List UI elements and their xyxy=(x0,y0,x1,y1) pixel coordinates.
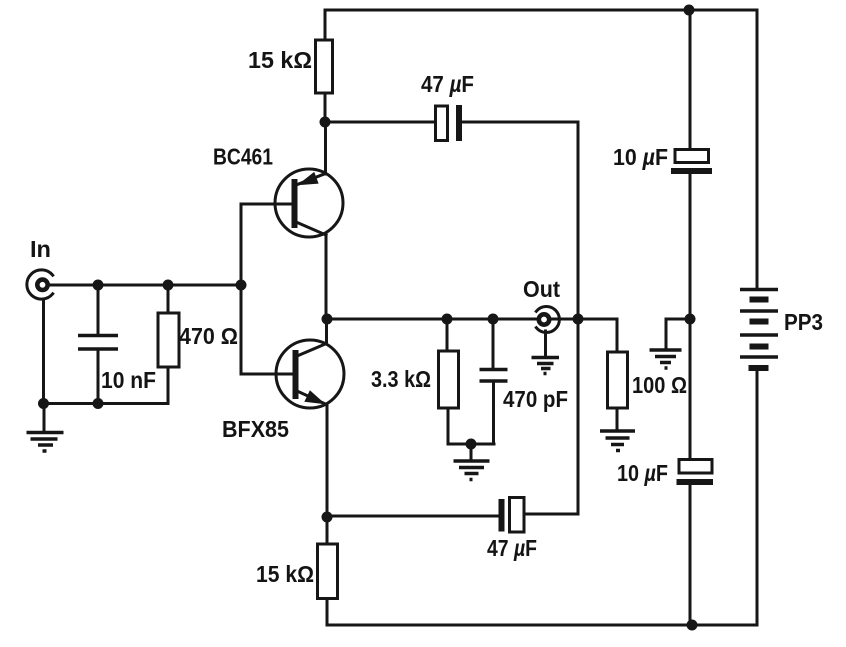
wire decoupling column middle xyxy=(689,174,692,460)
ground input xyxy=(27,404,64,452)
svg-text:BC461: BC461 xyxy=(213,144,273,170)
junction BFX85 emitter node xyxy=(322,512,333,523)
battery PP3 xyxy=(740,290,778,369)
ground centre tap xyxy=(650,350,682,368)
junction input at 10nF xyxy=(93,280,104,291)
junction bottom link xyxy=(466,439,477,450)
transistor Q1 BC461 xyxy=(275,169,343,237)
svg-text:Out: Out xyxy=(523,276,560,302)
svg-text:3.3 kΩ: 3.3 kΩ xyxy=(371,366,431,392)
transistor Q2 BFX85 xyxy=(276,340,344,408)
junction mid rail at 3.3k xyxy=(442,314,453,325)
label 10 uF upper xyxy=(613,144,668,170)
resistor 3.3 kOhm xyxy=(439,319,459,444)
svg-text:47 µF: 47 µF xyxy=(421,71,474,97)
capacitor 10 uF (upper) xyxy=(671,150,712,172)
label 10 nF xyxy=(101,367,156,393)
wire emitter node to lower coupling cap xyxy=(327,515,499,518)
label 47 uF upper xyxy=(421,71,474,97)
label 470 Ohm xyxy=(179,323,238,349)
junction decoupling column centre tap xyxy=(685,314,696,325)
resistor 15 kOhm (upper) xyxy=(316,10,333,122)
wire lower coupling cap to output column xyxy=(524,513,578,516)
wire BFX85 emitter lead down xyxy=(326,405,329,517)
wire BFX85 collector lead up to mid node xyxy=(325,319,328,344)
junction mid rail at 470pF xyxy=(488,314,499,325)
wire BC461 emitter lead xyxy=(324,122,327,174)
svg-text:15 kΩ: 15 kΩ xyxy=(248,47,312,73)
label 3.3 kOhm xyxy=(371,366,431,392)
svg-text:10 µF: 10 µF xyxy=(617,460,668,486)
wire right supply column lower (from battery -) xyxy=(756,368,759,625)
wire right supply column upper (to battery +) xyxy=(756,10,759,289)
wire base link BFX85 xyxy=(241,285,293,374)
svg-text:10 nF: 10 nF xyxy=(101,367,156,393)
junction bottom rail at 10uF branch xyxy=(687,620,698,631)
svg-text:15 kΩ: 15 kΩ xyxy=(256,561,314,587)
resistor 470 Ohm xyxy=(158,285,179,404)
junction input at 470R xyxy=(163,280,174,291)
label 47 uF lower xyxy=(487,535,537,561)
junction mid rail at transistors xyxy=(322,314,333,325)
wire decoupling column lower xyxy=(689,485,692,626)
wire In jack sleeve down xyxy=(42,299,45,404)
svg-text:470 Ω: 470 Ω xyxy=(179,323,238,349)
svg-text:47 µF: 47 µF xyxy=(487,535,537,561)
label BC461 xyxy=(213,144,273,170)
wire mid output rail xyxy=(326,318,538,321)
ground 3.3k/470pF xyxy=(454,444,490,480)
node Out xyxy=(523,276,560,302)
svg-text:In: In xyxy=(30,236,51,262)
wire Out jack sleeve stub xyxy=(544,331,547,356)
wire input ground rail xyxy=(44,402,169,405)
connector Out jack xyxy=(536,307,559,333)
label 470 pF xyxy=(503,386,568,412)
svg-text:10 µF: 10 µF xyxy=(613,144,668,170)
svg-text:470 pF: 470 pF xyxy=(503,386,568,412)
capacitor 10 uF (lower) xyxy=(677,460,714,483)
label 15 kOhm lower xyxy=(256,561,314,587)
junction ground rail at 10nF xyxy=(93,398,104,409)
wire 3.3k to 470pF bottom link xyxy=(448,443,494,446)
wire bottom supply rail xyxy=(327,624,757,627)
label 100 Ohm xyxy=(632,372,687,398)
resistor 15 kOhm (lower) xyxy=(318,517,338,625)
capacitor 47 uF (lower coupling) xyxy=(502,498,525,533)
resistor 100 Ohm xyxy=(608,352,628,430)
svg-text:BFX85: BFX85 xyxy=(222,416,289,442)
label 15 kOhm upper xyxy=(248,47,312,73)
capacitor 10 nF xyxy=(78,285,118,404)
capacitor 470 pF xyxy=(480,319,508,444)
svg-text:100 Ω: 100 Ω xyxy=(632,372,687,398)
connector In jack xyxy=(27,270,53,299)
label PP3 xyxy=(784,309,823,335)
wire input rail xyxy=(49,284,241,287)
label BFX85 xyxy=(222,416,289,442)
junction input at base column xyxy=(236,280,247,291)
wire base link BC461 xyxy=(241,204,292,285)
wire coupling cap to output column xyxy=(462,121,579,124)
capacitor 47 uF (upper coupling) xyxy=(436,105,460,141)
wire collector node to coupling cap xyxy=(325,121,434,124)
wire BC461 collector lead down to mid node xyxy=(325,235,328,319)
wire Out jack to output column xyxy=(550,318,578,321)
wire mid rail to 100R xyxy=(578,319,617,352)
junction ground rail at jack xyxy=(38,398,49,409)
junction output column at mid rail xyxy=(573,314,584,325)
wire centre tap to ground xyxy=(666,319,690,349)
svg-text:PP3: PP3 xyxy=(784,309,823,335)
node In xyxy=(30,236,51,262)
wire top supply rail xyxy=(325,9,757,12)
wire output feed column xyxy=(577,122,580,514)
label 10 uF lower xyxy=(617,460,668,486)
junction collector node BC461 xyxy=(320,117,331,128)
ground 100R xyxy=(600,431,635,451)
ground Out jack xyxy=(532,358,560,374)
junction top rail at 10uF branch xyxy=(684,5,695,16)
wire decoupling column upper xyxy=(689,10,692,150)
